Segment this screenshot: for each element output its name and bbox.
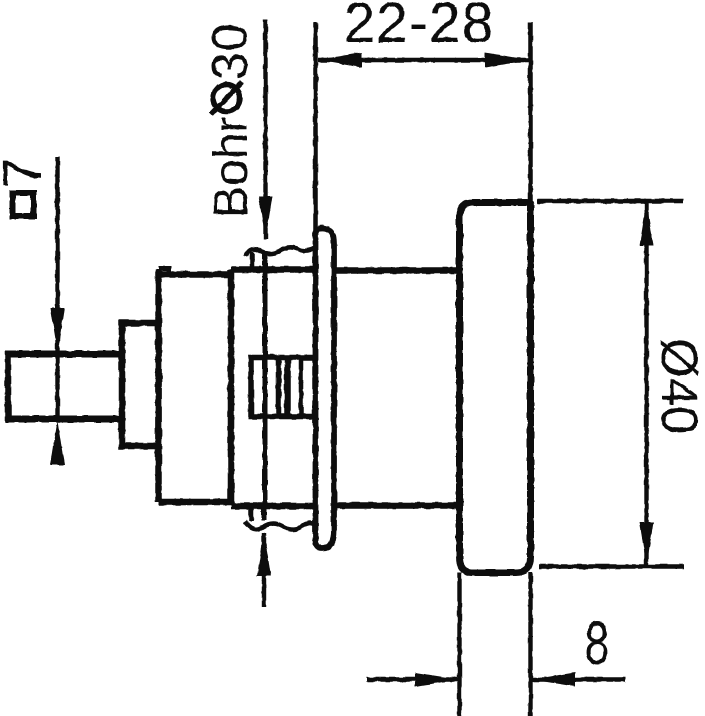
- sleeve bottom edge: [334, 502, 460, 509]
- dimension 22-28 arrowhead left: [317, 53, 362, 68]
- label Bohr arrowhead bottom: [257, 532, 271, 576]
- sleeve top edge: [334, 267, 460, 274]
- label Bohr leader line top: [263, 19, 267, 239]
- dimension 22-28 text: [344, 0, 495, 55]
- svg-text:8: 8: [585, 611, 610, 678]
- label Bohr diameter 30 text "30": [202, 22, 258, 80]
- square shaft bottom edge: [5, 416, 122, 423]
- threaded neck top edge: [231, 266, 316, 273]
- dimension 8 text: [585, 611, 610, 678]
- square shaft top edge: [5, 351, 122, 358]
- body barrel corner tab: [159, 269, 170, 275]
- dimension diameter 40 arrowhead bottom: [640, 522, 654, 566]
- body barrel bottom edge: [159, 499, 232, 506]
- panel inner edge line: [263, 251, 268, 505]
- svg-text:30: 30: [202, 22, 258, 80]
- square shaft left end face: [5, 351, 12, 422]
- body barrel top edge: [159, 271, 232, 278]
- svg-text:Bohr: Bohr: [205, 117, 258, 218]
- panel rear face lower stub: [262, 506, 267, 520]
- dimension 22-28 extension line right: [528, 22, 533, 203]
- dimension diameter 40 extension line top: [537, 199, 684, 203]
- body barrel left edge: [155, 270, 162, 503]
- dimension 8 line right: [532, 677, 626, 681]
- panel hole break line top: [246, 247, 314, 256]
- knob disc outline: [460, 203, 531, 573]
- body barrel rear face: [228, 270, 235, 506]
- panel front face upper: [250, 252, 255, 270]
- label Bohr diameter symbol circle: [213, 85, 240, 112]
- label square-7 text: [0, 157, 53, 188]
- label square-7 arrowhead top: [51, 308, 65, 352]
- label Bohr arrowhead top: [259, 196, 273, 239]
- dimension diameter 40 dimension line: [644, 203, 648, 566]
- label square-7 leader line: [55, 157, 59, 421]
- svg-text:Ø40: Ø40: [651, 338, 705, 434]
- thread block outline: [251, 358, 315, 417]
- label Bohr diameter symbol slash: [212, 82, 243, 114]
- dimension 8 arrowhead right: [532, 673, 576, 687]
- dimension diameter 40 arrowhead top: [640, 202, 654, 246]
- label Bohr diameter 30 text "Bohr": [205, 117, 258, 218]
- panel hole break line bottom: [245, 521, 314, 530]
- label Bohr leader line bottom: [262, 533, 266, 607]
- thread block stripe 1: [276, 360, 282, 414]
- dimension 22-28 dimension line: [318, 58, 529, 62]
- panel front face lower: [249, 505, 254, 521]
- thread block stripe 3: [299, 360, 304, 414]
- thread block stripe 2: [284, 360, 291, 414]
- step block collar: [122, 323, 159, 446]
- label square-7 square symbol: [13, 193, 34, 216]
- knob disc extension line lower left: [457, 573, 461, 716]
- label square-7 arrowhead bottom: [51, 421, 65, 465]
- dimension 22-28 arrowhead right: [485, 53, 530, 68]
- threaded neck bottom edge: [231, 503, 316, 510]
- dimension diameter 40 text: [651, 338, 705, 434]
- svg-text:22-28: 22-28: [344, 0, 495, 55]
- svg-text:7: 7: [0, 157, 53, 188]
- dimension diameter 40 extension line bottom: [539, 564, 684, 568]
- flange rosette outline: [316, 228, 335, 548]
- knob disc extension line lower right: [528, 573, 532, 716]
- dimension 8 arrowhead left: [415, 673, 459, 687]
- dimension 8 line left: [367, 677, 460, 681]
- dimension 22-28 extension line left: [313, 22, 318, 232]
